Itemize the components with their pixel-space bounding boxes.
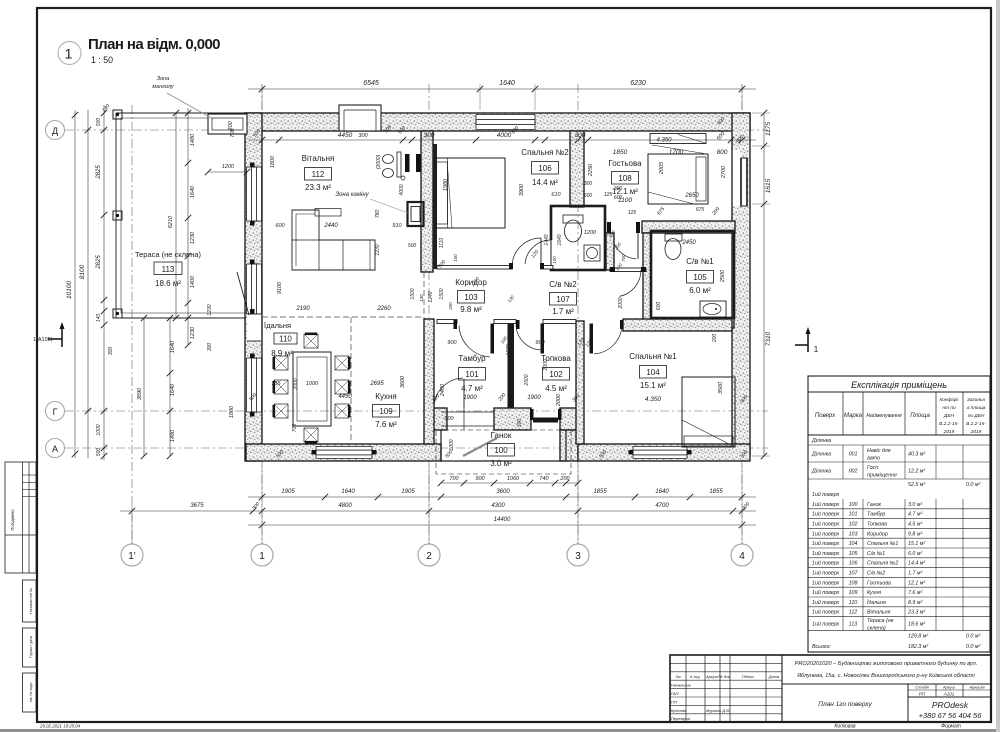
svg-text:Інв. № подл.: Інв. № подл.: [29, 682, 33, 703]
svg-text:4450: 4450: [338, 394, 352, 400]
svg-text:1: 1: [259, 551, 265, 562]
svg-text:авто: авто: [867, 456, 880, 462]
north wall window 1640: [476, 115, 535, 130]
guest room south wall: [642, 221, 735, 233]
west exterior wall: [245, 113, 262, 461]
svg-text:Спальня №2: Спальня №2: [521, 148, 569, 157]
dining table: [293, 352, 331, 426]
terrace post middle: [113, 211, 122, 220]
svg-text:6.0 м²: 6.0 м²: [908, 551, 922, 557]
svg-text:1000: 1000: [306, 381, 319, 387]
svg-text:Стадія: Стадія: [915, 685, 930, 690]
svg-text:101: 101: [849, 512, 858, 518]
bedroom2 door opening: [512, 264, 541, 269]
section marker 1 right: [807, 330, 809, 352]
svg-text:1855: 1855: [593, 489, 607, 495]
svg-text:1905: 1905: [281, 489, 295, 495]
svg-text:3.0 м²: 3.0 м²: [490, 459, 512, 468]
east wall white inner part at guest window: [733, 150, 741, 206]
porch band right corner: [560, 408, 578, 430]
svg-text:Перевірив: Перевірив: [671, 716, 690, 721]
svg-text:3.0 м²: 3.0 м²: [908, 502, 922, 508]
svg-text:110: 110: [279, 335, 292, 344]
svg-text:910: 910: [392, 223, 402, 229]
svg-text:приміщення: приміщення: [867, 473, 897, 479]
svg-text:2260: 2260: [376, 306, 391, 312]
living room side table: [315, 209, 341, 217]
topkova door leaf: [541, 324, 545, 354]
corridor east lobby wall vertical: [606, 233, 614, 270]
svg-text:РП: РП: [919, 692, 926, 697]
axis 2 line: [428, 84, 430, 544]
svg-text:200: 200: [448, 302, 453, 311]
svg-text:1ий поверх: 1ий поверх: [812, 550, 840, 557]
svg-text:001: 001: [849, 452, 858, 458]
svg-text:В.2.2-15-: В.2.2-15-: [966, 421, 986, 427]
sv2 toilet: [563, 215, 583, 223]
axis 1' line: [131, 105, 133, 544]
svg-text:А101: А101: [943, 692, 955, 697]
fireplace wall (living/bedroom2): [421, 131, 433, 272]
svg-text:Начальник: Начальник: [671, 683, 692, 688]
svg-text:Аркуш: Аркуш: [942, 685, 956, 690]
svg-text:1640: 1640: [557, 234, 563, 245]
svg-text:8.9 м²: 8.9 м²: [908, 600, 922, 606]
svg-text:129.8 м²: 129.8 м²: [908, 633, 928, 639]
svg-text:1ий поверх: 1ий поверх: [812, 589, 840, 596]
svg-text:740: 740: [539, 476, 549, 482]
svg-text:1ий поверх: 1ий поверх: [812, 560, 840, 567]
svg-text:4300: 4300: [491, 503, 505, 509]
corridor south wall thin segment 3: [543, 320, 576, 324]
tambour door arc: [459, 325, 490, 357]
svg-text:1640: 1640: [499, 80, 515, 87]
svg-text:102: 102: [849, 522, 858, 528]
svg-text:1640: 1640: [655, 489, 669, 495]
svg-text:100: 100: [849, 502, 858, 508]
svg-text:Д: Д: [52, 126, 58, 136]
svg-text:Погоджено: Погоджено: [10, 509, 15, 531]
left strip box Pidpys i data: [23, 628, 37, 667]
top inner dim row: [248, 139, 756, 141]
svg-text:9.8 м²: 9.8 м²: [908, 531, 922, 537]
svg-text:4.7 м²: 4.7 м²: [908, 512, 922, 518]
axis A line: [65, 447, 768, 449]
living-kitchen boundary dashed: [262, 316, 424, 318]
tambour door jamb: [454, 320, 458, 329]
svg-text:108: 108: [849, 580, 858, 586]
bathroom2 (sv2) box: [551, 206, 605, 270]
guest room bed: [648, 154, 708, 204]
svg-text:300: 300: [207, 343, 213, 352]
dining chair right 3: [335, 404, 349, 418]
svg-text:18.6 м²: 18.6 м²: [908, 622, 925, 628]
svg-text:1ий поверх: 1ий поверх: [812, 599, 840, 606]
svg-text:105: 105: [693, 273, 707, 282]
svg-text:675: 675: [696, 207, 705, 213]
svg-text:23.3 м²: 23.3 м²: [305, 183, 331, 192]
dining chair bottom: [304, 428, 318, 442]
terrace post bottom: [113, 309, 122, 318]
svg-text:2190: 2190: [295, 306, 310, 312]
lobby wall horizontal: [610, 268, 646, 272]
svg-text:1500: 1500: [410, 288, 416, 299]
svg-text:Кухня: Кухня: [375, 392, 396, 401]
svg-text:1175: 1175: [765, 122, 772, 136]
svg-text:Навіс для: Навіс для: [867, 448, 891, 454]
left outer chain 10100: [74, 110, 76, 458]
explication table outer: [808, 376, 990, 652]
title block project text: [782, 683, 991, 685]
svg-text:102: 102: [549, 370, 563, 379]
svg-text:3600: 3600: [400, 375, 406, 388]
svg-text:1000: 1000: [96, 424, 102, 435]
svg-text:2019: 2019: [970, 429, 982, 435]
svg-text:1230: 1230: [190, 326, 196, 339]
svg-text:Тераса (не: Тераса (не: [867, 618, 894, 624]
left strip box Vzam inv: [23, 580, 37, 622]
svg-text:Зона каміну: Зона каміну: [335, 192, 369, 198]
svg-text:Ділянка: Ділянка: [811, 452, 831, 458]
svg-text:800: 800: [717, 149, 728, 156]
corridor north wall (bedroom2 side): [437, 266, 512, 270]
svg-text:PRO20201020 – Будівництво житл: PRO20201020 – Будівництво житлового прив…: [795, 661, 978, 667]
svg-text:Ганок: Ганок: [491, 431, 512, 440]
svg-text:PROdesk: PROdesk: [932, 700, 969, 710]
terrace outline: [116, 113, 246, 318]
svg-text:300: 300: [584, 181, 593, 187]
svg-text:0.0 м²: 0.0 м²: [966, 633, 980, 639]
svg-text:по ДБН: по ДБН: [968, 413, 985, 419]
axis 2 bubble: [418, 544, 440, 566]
sv1 west wall: [643, 233, 651, 325]
svg-text:9100: 9100: [277, 281, 283, 294]
svg-text:6545: 6545: [363, 80, 379, 87]
svg-text:Зм: Зм: [675, 674, 680, 679]
axis 1 line: [261, 84, 263, 544]
scan edge shadow right: [996, 0, 1000, 732]
bedroom1 door jamb: [620, 320, 624, 329]
axis 4 bubble: [731, 544, 753, 566]
sv2 washbasin: [584, 245, 600, 261]
axis A bubble: [46, 439, 65, 458]
svg-text:101: 101: [465, 370, 479, 379]
bottom porch dim chain: [441, 482, 578, 484]
left lower chains 3890/1640/1480: [143, 318, 145, 456]
terrace 1200 dim: [208, 171, 247, 173]
sv2 door opening and arc: [549, 240, 554, 266]
svg-text:40.3 м²: 40.3 м²: [908, 452, 925, 458]
svg-text:8100: 8100: [79, 264, 86, 279]
svg-text:300: 300: [424, 132, 435, 139]
svg-text:1110: 1110: [439, 238, 445, 249]
axis G line: [65, 410, 768, 412]
svg-text:15.1 м²: 15.1 м²: [908, 541, 925, 547]
dining chair right 1: [335, 356, 349, 370]
svg-text:125: 125: [628, 210, 637, 216]
corridor south wall thin segment 1: [437, 320, 457, 324]
svg-text:14.4 м²: 14.4 м²: [908, 561, 925, 567]
north exterior wall: [245, 113, 750, 131]
svg-text:600: 600: [614, 195, 623, 201]
svg-text:7.6 м²: 7.6 м²: [375, 420, 397, 429]
left strip box Inv no: [23, 673, 37, 712]
svg-text:500: 500: [96, 448, 102, 457]
svg-text:С/в №2: С/в №2: [867, 571, 885, 577]
dining chair left 1: [274, 356, 288, 370]
svg-text:108: 108: [618, 174, 632, 183]
svg-text:113: 113: [162, 265, 175, 274]
svg-text:ГІП: ГІП: [671, 699, 677, 704]
axis G bubble: [46, 402, 65, 421]
svg-text:К-льу: К-льу: [690, 674, 701, 679]
left outer chain 8100: [87, 110, 89, 458]
sv1 south wall stub: [651, 318, 734, 328]
sv1 door arc: [620, 270, 641, 296]
svg-text:Зона: Зона: [157, 76, 170, 82]
topkova door arc: [516, 325, 540, 350]
svg-text:113: 113: [849, 622, 857, 628]
svg-text:1(А105): 1(А105): [33, 337, 53, 343]
svg-text:52.5 м²: 52.5 м²: [908, 482, 925, 488]
explication header row: [842, 392, 844, 435]
svg-text:Кресляв: Кресляв: [671, 708, 686, 713]
bottom dim chain row 2: [120, 510, 756, 512]
svg-text:2000: 2000: [293, 378, 299, 390]
svg-text:1ий поверх: 1ий поверх: [812, 530, 840, 537]
svg-text:300: 300: [358, 133, 368, 139]
svg-text:С/в №1: С/в №1: [867, 551, 885, 557]
svg-text:700: 700: [228, 120, 234, 130]
svg-text:Гостьова: Гостьова: [608, 159, 642, 168]
svg-text:1200: 1200: [584, 230, 597, 236]
svg-text:107: 107: [556, 295, 570, 304]
svg-text:2695: 2695: [369, 381, 384, 387]
svg-text:4.350: 4.350: [656, 138, 672, 144]
svg-text:300: 300: [108, 347, 114, 356]
svg-text:4: 4: [739, 551, 745, 562]
bedroom1 door leaf: [590, 324, 594, 354]
south wall left (kitchen): [246, 444, 441, 461]
svg-text:Вітальня: Вітальня: [302, 154, 335, 163]
tambour-topkova black wall: [508, 324, 515, 409]
svg-text:610: 610: [551, 192, 561, 198]
svg-text:1900: 1900: [463, 395, 477, 401]
bedroom1 south window jambs: [629, 450, 634, 455]
svg-text:ДБН: ДБН: [943, 413, 954, 419]
svg-text:1ий поверх: 1ий поверх: [812, 511, 840, 518]
svg-text:0.0 м²: 0.0 м²: [966, 644, 980, 650]
svg-text:Формат: Формат: [941, 724, 961, 730]
svg-text:Поверх: Поверх: [815, 413, 836, 419]
svg-text:2650: 2650: [684, 193, 699, 199]
svg-text:755: 755: [271, 381, 281, 387]
svg-text:2000: 2000: [543, 359, 549, 371]
svg-text:1ий поверх: 1ий поверх: [812, 521, 840, 528]
svg-text:103: 103: [464, 293, 478, 302]
porch pier wall: [494, 408, 531, 430]
bottom extension lines: [261, 466, 263, 544]
fireplace: [408, 202, 424, 226]
dining-kitchen boundary dashed vertical: [350, 317, 352, 442]
svg-text:2: 2: [426, 551, 432, 562]
svg-text:Спальня №2: Спальня №2: [867, 561, 898, 567]
svg-text:1900: 1900: [527, 395, 541, 401]
svg-text:+380 67 56 404 56: +380 67 56 404 56: [919, 711, 983, 720]
dining chair left 3: [274, 404, 288, 418]
bedroom2 west partition line: [433, 144, 437, 269]
dining chair top: [304, 334, 318, 348]
svg-text:1.7 м²: 1.7 м²: [552, 307, 574, 316]
svg-text:130: 130: [419, 294, 424, 302]
svg-text:1ий поверх: 1ий поверх: [812, 570, 840, 577]
living room stools: [383, 155, 394, 164]
dining chair left 2: [274, 380, 288, 394]
axis D line: [65, 129, 768, 131]
svg-text:2500: 2500: [720, 269, 726, 283]
terrace chain 6210: [175, 113, 177, 318]
sv1 washbasin: [700, 301, 726, 317]
svg-text:104: 104: [646, 368, 660, 377]
svg-text:1: 1: [65, 46, 73, 62]
svg-text:Спальня №1: Спальня №1: [629, 352, 677, 361]
living room sofa L-shape: [292, 210, 375, 270]
svg-text:3900: 3900: [519, 183, 525, 196]
svg-text:1': 1': [128, 551, 136, 562]
bottom dim chain row 1: [248, 496, 756, 498]
svg-text:2700: 2700: [721, 165, 727, 179]
svg-text:23.3 м²: 23.3 м²: [907, 610, 925, 616]
svg-text:500: 500: [517, 419, 523, 428]
svg-text:(2000): (2000): [376, 154, 382, 169]
svg-text:1440: 1440: [544, 234, 550, 245]
svg-text:2000: 2000: [618, 297, 624, 309]
svg-text:1800: 1800: [270, 155, 276, 168]
svg-text:Мурать Д.В.: Мурать Д.В.: [706, 708, 730, 713]
svg-text:Ділянка: Ділянка: [811, 438, 831, 444]
svg-text:3: 3: [575, 551, 581, 562]
svg-text:Госп.: Госп.: [867, 465, 880, 471]
dining chair right 2: [335, 380, 349, 394]
left attribute strip upper table: [5, 462, 36, 573]
axis 3 bubble: [567, 544, 589, 566]
svg-text:4450: 4450: [338, 132, 353, 139]
svg-text:№ док.: № док.: [719, 674, 732, 679]
svg-text:Ганок: Ганок: [867, 502, 882, 508]
svg-text:Підпис і дата: Підпис і дата: [29, 636, 33, 658]
svg-text:3500: 3500: [718, 381, 724, 394]
svg-text:0.0 м²: 0.0 м²: [966, 482, 980, 488]
tambour entrance arc: [434, 378, 463, 407]
svg-text:700: 700: [449, 476, 459, 482]
scan edge shadow bottom: [0, 729, 1000, 732]
svg-text:900: 900: [444, 416, 454, 422]
svg-text:7310: 7310: [765, 331, 772, 346]
svg-text:103: 103: [849, 531, 858, 537]
porch overhang dashed: [436, 430, 571, 474]
sv1 toilet: [665, 234, 682, 241]
svg-text:3600: 3600: [496, 489, 510, 495]
terrace door leaf: [237, 272, 249, 315]
left chain 2825 segments: [103, 105, 105, 460]
svg-text:600: 600: [584, 193, 593, 199]
svg-text:1ий поверх: 1ий поверх: [812, 491, 840, 498]
bedroom1 west wall: [576, 321, 584, 444]
svg-text:900: 900: [447, 340, 457, 346]
svg-text:2400: 2400: [440, 383, 446, 397]
svg-text:4.350: 4.350: [645, 396, 662, 403]
svg-text:200: 200: [559, 476, 570, 482]
svg-text:Коридор: Коридор: [867, 531, 888, 537]
svg-text:2440: 2440: [323, 223, 338, 229]
svg-text:2450: 2450: [681, 240, 696, 246]
svg-text:7.6 м²: 7.6 м²: [908, 590, 922, 596]
svg-text:Тамбур: Тамбур: [458, 354, 486, 363]
title block outer: [670, 655, 991, 722]
svg-text:1480: 1480: [190, 133, 196, 146]
svg-text:10100: 10100: [66, 281, 73, 299]
svg-text:106: 106: [849, 561, 858, 567]
svg-text:112: 112: [849, 610, 857, 616]
svg-text:3890: 3890: [137, 387, 143, 400]
svg-text:900: 900: [535, 340, 545, 346]
svg-text:2250: 2250: [588, 163, 594, 177]
title block left grid: [685, 655, 687, 722]
kitchen window: [316, 447, 372, 459]
svg-text:Тераса (не склена): Тераса (не склена): [135, 250, 202, 259]
svg-text:1905: 1905: [401, 489, 415, 495]
svg-text:18.6 м²: 18.6 м²: [155, 279, 181, 288]
svg-text:100: 100: [453, 254, 458, 262]
guest room door arc: [612, 234, 636, 259]
svg-text:12.1 м²: 12.1 м²: [908, 580, 925, 586]
svg-text:4800: 4800: [338, 503, 352, 509]
zona mangalu leader: [167, 93, 213, 119]
terrace post top: [113, 110, 122, 119]
tv console black bars: [405, 154, 410, 172]
svg-text:4.5 м²: 4.5 м²: [545, 384, 567, 393]
axis 1 bubble: [251, 544, 273, 566]
svg-text:3675: 3675: [190, 503, 204, 509]
bedroom1 north wall east part: [623, 319, 732, 331]
svg-text:1000: 1000: [449, 439, 455, 450]
svg-text:1060: 1060: [507, 476, 520, 482]
bbq box in terrace corner: [208, 114, 247, 134]
svg-text:002: 002: [849, 469, 858, 475]
tambour door leaf: [491, 324, 495, 354]
svg-text:100: 100: [494, 446, 508, 455]
svg-text:а площа: а площа: [967, 406, 986, 411]
svg-text:8.9 м²: 8.9 м²: [271, 349, 293, 358]
svg-text:26.02.2021 19:25:04: 26.02.2021 19:25:04: [39, 724, 81, 729]
svg-text:9.8 м²: 9.8 м²: [460, 305, 482, 314]
svg-text:1500: 1500: [506, 344, 512, 355]
svg-text:700: 700: [621, 254, 626, 262]
svg-text:106: 106: [538, 164, 552, 173]
svg-text:1ий поверх: 1ий поверх: [812, 621, 840, 628]
svg-text:6230: 6230: [630, 80, 646, 87]
svg-text:15.1 м²: 15.1 м²: [640, 381, 666, 390]
svg-text:Загальн: Загальн: [967, 397, 986, 403]
svg-text:500: 500: [96, 118, 102, 127]
bedroom2 bed: [435, 158, 505, 228]
svg-text:1640: 1640: [341, 489, 355, 495]
svg-text:300: 300: [575, 132, 586, 139]
svg-text:4000: 4000: [497, 132, 512, 139]
svg-text:А: А: [52, 444, 58, 454]
svg-text:1640: 1640: [170, 383, 176, 396]
south wall porch band left stub: [430, 408, 447, 430]
